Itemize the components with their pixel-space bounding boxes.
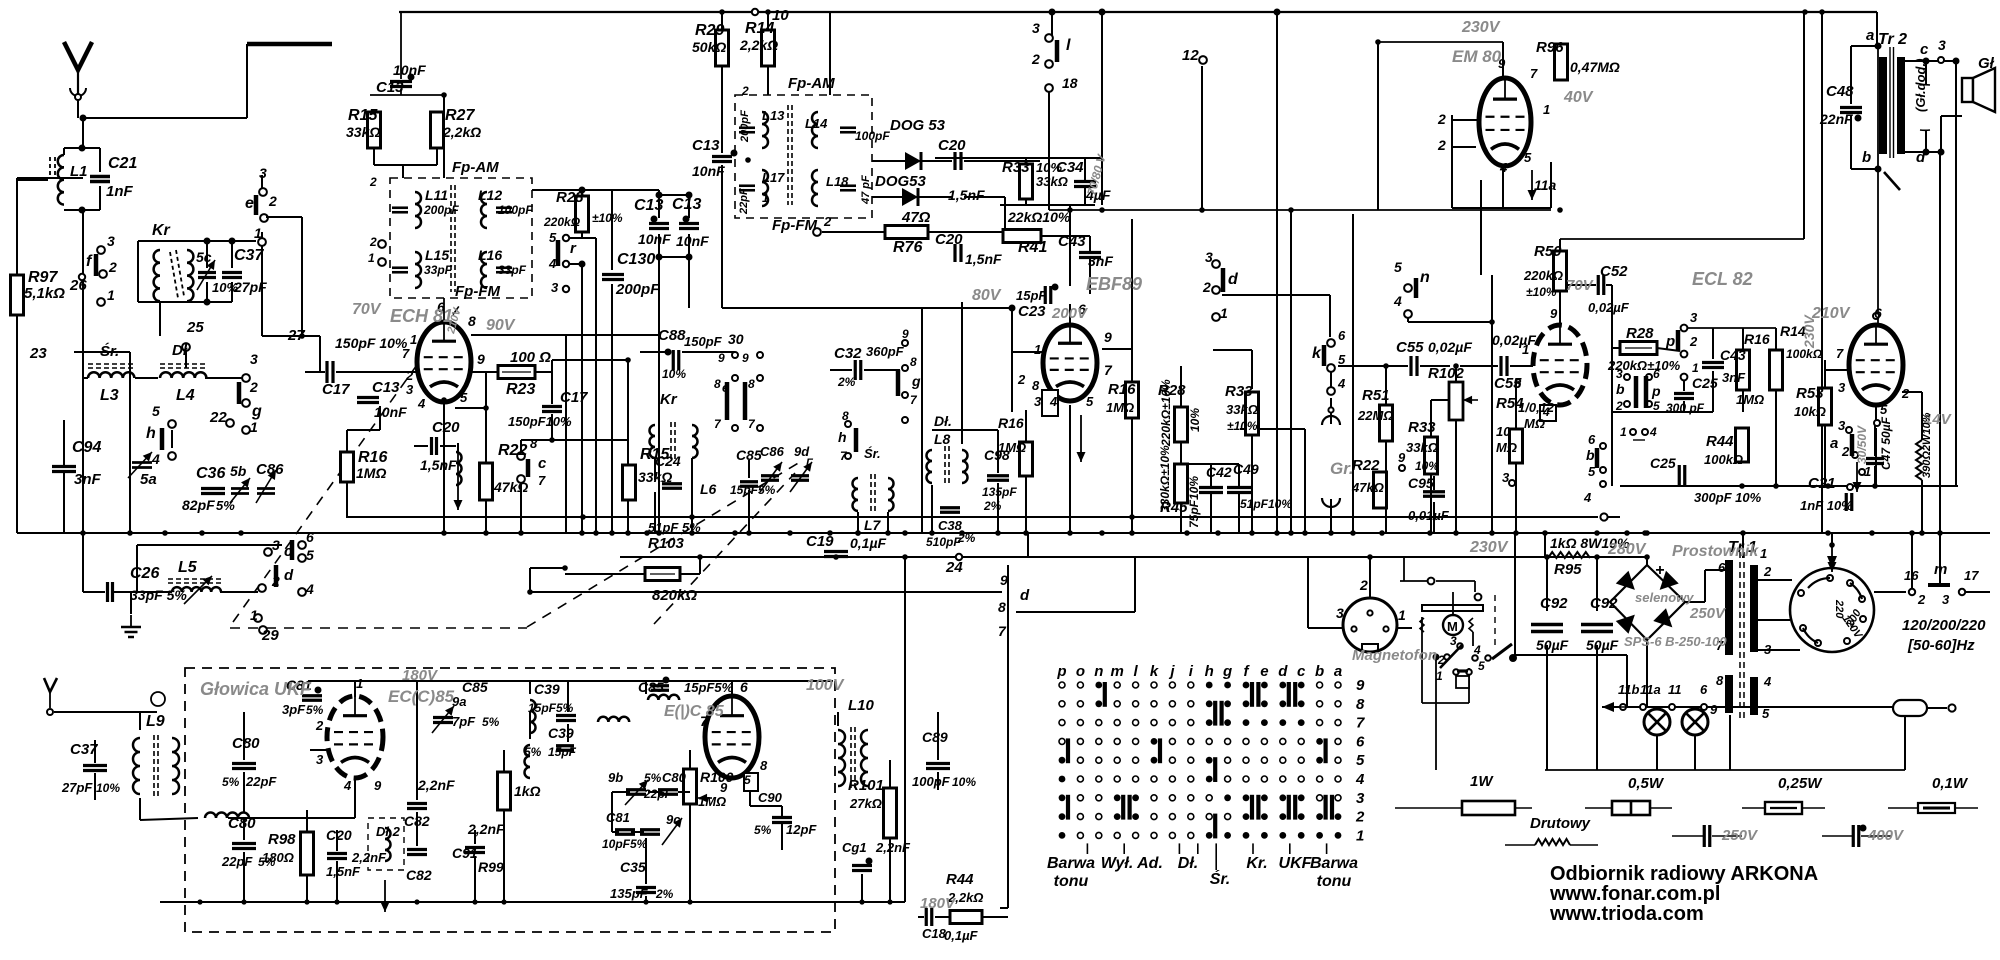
svg-text:25: 25 [186, 319, 204, 336]
svg-text:b: b [1586, 447, 1595, 463]
svg-text:C17: C17 [322, 381, 350, 398]
svg-text:3nF: 3nF [1088, 253, 1113, 269]
svg-text:2: 2 [1359, 577, 1368, 593]
svg-text:R29: R29 [695, 22, 724, 39]
svg-text:3: 3 [1690, 310, 1698, 325]
svg-text:2: 2 [1031, 51, 1040, 67]
svg-text:k: k [1150, 663, 1159, 680]
svg-text:5: 5 [1356, 752, 1365, 769]
svg-text:p: p [1651, 383, 1661, 399]
svg-text:5: 5 [1653, 399, 1660, 413]
svg-text:4: 4 [1542, 405, 1550, 419]
svg-text:3: 3 [1764, 642, 1772, 657]
svg-text:510pF: 510pF [926, 535, 961, 549]
svg-text:200pF: 200pF [615, 281, 660, 298]
svg-text:C13: C13 [372, 379, 400, 396]
svg-text:200V: 200V [1051, 305, 1089, 322]
svg-text:Barwa: Barwa [1310, 855, 1358, 872]
svg-text:10pF5%: 10pF5% [602, 837, 648, 851]
svg-text:d: d [1916, 149, 1926, 166]
svg-text:0,5W: 0,5W [1628, 775, 1665, 792]
svg-text:16: 16 [1904, 568, 1919, 583]
svg-text:2: 2 [1202, 279, 1211, 295]
svg-text:8: 8 [842, 409, 849, 423]
svg-text:22pF: 22pF [221, 854, 253, 869]
svg-text:82pF: 82pF [182, 497, 215, 513]
svg-text:1: 1 [1398, 607, 1406, 623]
svg-text:4: 4 [1355, 771, 1365, 788]
svg-text:2%: 2% [837, 375, 856, 389]
svg-text:4: 4 [343, 778, 352, 793]
svg-text:4: 4 [1473, 643, 1481, 657]
svg-text:8: 8 [1514, 376, 1522, 391]
svg-text:9: 9 [1498, 56, 1506, 71]
svg-text:R44: R44 [1706, 433, 1734, 450]
svg-text:220kΩ: 220kΩ [1523, 268, 1563, 283]
svg-text:3nF: 3nF [1722, 370, 1746, 385]
svg-text:400V: 400V [1867, 827, 1905, 844]
svg-text:p: p [1665, 333, 1675, 350]
svg-text:9: 9 [902, 327, 909, 341]
svg-text:2: 2 [1437, 111, 1446, 127]
svg-text:250V: 250V [1689, 605, 1727, 622]
svg-text:180Ω: 180Ω [262, 850, 294, 865]
svg-text:8: 8 [1032, 378, 1040, 393]
svg-text:C13: C13 [672, 196, 701, 213]
svg-text:1MΩ: 1MΩ [998, 440, 1026, 455]
svg-text:R102: R102 [1428, 365, 1465, 382]
svg-text:1: 1 [1543, 102, 1550, 117]
svg-text:33kΩ: 33kΩ [1036, 174, 1068, 189]
svg-text:L16: L16 [478, 247, 502, 263]
svg-text:7: 7 [1530, 66, 1538, 81]
svg-text:[50-60]Hz: [50-60]Hz [1907, 637, 1975, 654]
svg-text:6: 6 [306, 529, 314, 545]
svg-text:50kΩ: 50kΩ [692, 39, 726, 55]
svg-text:Ad.: Ad. [1136, 855, 1163, 872]
svg-text:Kr: Kr [660, 391, 678, 408]
svg-text:80V: 80V [972, 287, 1002, 304]
svg-text:R16: R16 [1744, 331, 1770, 347]
svg-text:5%: 5% [754, 823, 772, 837]
svg-text:33kΩ: 33kΩ [638, 469, 672, 485]
svg-text:2: 2 [315, 718, 324, 733]
svg-text:C81: C81 [606, 810, 630, 825]
svg-text:200pF: 200pF [423, 203, 459, 217]
svg-text:C20: C20 [432, 419, 460, 436]
svg-text:3: 3 [551, 280, 559, 295]
svg-text:E(|)C 85: E(|)C 85 [664, 703, 725, 720]
svg-text:11: 11 [1668, 682, 1682, 697]
svg-text:1: 1 [762, 191, 769, 205]
svg-text:C85: C85 [462, 679, 488, 695]
svg-text:9: 9 [1710, 702, 1718, 717]
svg-text:7: 7 [998, 623, 1007, 639]
svg-text:C32: C32 [834, 345, 862, 362]
svg-text:C20: C20 [938, 137, 966, 154]
svg-text:Wył.: Wył. [1101, 855, 1134, 872]
svg-text:230V: 230V [1801, 314, 1817, 349]
svg-text:Odbiornik radiowy ARKONA: Odbiornik radiowy ARKONA [1550, 863, 1818, 885]
svg-text:1: 1 [107, 287, 115, 303]
svg-text:15pF5%: 15pF5% [684, 680, 734, 695]
svg-text:3: 3 [316, 752, 324, 767]
svg-text:10nF: 10nF [374, 404, 407, 420]
svg-text:1: 1 [1692, 361, 1699, 375]
svg-text:±10%: ±10% [592, 211, 623, 225]
svg-text:Głowica UKF: Głowica UKF [200, 679, 312, 699]
svg-text:Prostownik: Prostownik [1672, 543, 1759, 560]
svg-text:100 Ω: 100 Ω [510, 349, 551, 366]
svg-text:2: 2 [741, 84, 749, 98]
svg-text:4: 4 [1049, 394, 1058, 409]
svg-text:3: 3 [1336, 605, 1344, 621]
svg-text:C88: C88 [658, 327, 686, 344]
svg-text:1W: 1W [1470, 773, 1494, 790]
svg-text:9: 9 [718, 351, 725, 365]
svg-text:230V: 230V [1469, 539, 1509, 556]
svg-text:b: b [1862, 149, 1871, 166]
svg-text:L13: L13 [762, 108, 785, 123]
svg-text:L11: L11 [425, 187, 448, 203]
svg-text:1: 1 [1522, 342, 1529, 357]
svg-text:C48: C48 [1826, 83, 1854, 100]
svg-text:C92: C92 [1540, 595, 1568, 612]
svg-text:1: 1 [368, 251, 375, 265]
svg-text:L14: L14 [805, 116, 828, 131]
svg-text:1: 1 [250, 419, 258, 435]
svg-text:0,25W: 0,25W [1778, 775, 1823, 792]
svg-text:33kΩ: 33kΩ [1226, 402, 1258, 417]
svg-text:1MΩ: 1MΩ [1736, 392, 1764, 407]
svg-text:100pF: 100pF [498, 203, 533, 217]
svg-text:27kΩ: 27kΩ [849, 796, 882, 811]
svg-text:4: 4 [305, 581, 314, 597]
svg-text:10nF: 10nF [638, 231, 671, 247]
svg-text:2,2nF: 2,2nF [351, 850, 387, 865]
svg-text:220kΩ±10%: 220kΩ±10% [1159, 379, 1173, 447]
svg-text:C37: C37 [70, 741, 98, 758]
svg-text:5: 5 [1394, 259, 1402, 275]
svg-text:3: 3 [406, 382, 414, 397]
svg-text:1: 1 [1864, 464, 1871, 479]
svg-text:0,01µF: 0,01µF [1408, 508, 1450, 523]
svg-text:150pF: 150pF [684, 334, 723, 349]
svg-text:a: a [1866, 27, 1874, 44]
svg-text:15pF: 15pF [1016, 288, 1047, 303]
svg-text:220kΩ: 220kΩ [543, 215, 581, 229]
svg-text:3: 3 [1942, 592, 1950, 607]
svg-text:2,2kΩ: 2,2kΩ [442, 124, 481, 140]
svg-text:3pF: 3pF [282, 702, 306, 717]
svg-text:5: 5 [1338, 352, 1346, 367]
svg-text:C18: C18 [922, 926, 947, 941]
svg-text:330kΩ±10%: 330kΩ±10% [1158, 445, 1172, 512]
svg-text:C82: C82 [406, 867, 432, 883]
svg-text:6: 6 [1874, 305, 1882, 321]
svg-text:2%: 2% [655, 887, 674, 901]
svg-text:200pF: 200pF [739, 110, 751, 143]
svg-text:33kΩ: 33kΩ [1406, 440, 1438, 455]
svg-text:C92: C92 [1590, 595, 1618, 612]
svg-text:Gł: Gł [1978, 55, 1995, 72]
svg-text:5%: 5% [306, 703, 324, 717]
svg-text:5: 5 [306, 547, 314, 563]
svg-text:1: 1 [250, 607, 258, 623]
svg-text:4: 4 [1393, 293, 1402, 309]
svg-text:33pF 5%: 33pF 5% [130, 587, 187, 603]
svg-text:5: 5 [1588, 464, 1596, 479]
svg-text:www.trioda.com: www.trioda.com [1549, 903, 1704, 925]
svg-text:7: 7 [700, 713, 709, 729]
svg-text:R97: R97 [28, 269, 58, 286]
svg-text:24: 24 [945, 559, 963, 576]
svg-text:280V: 280V [1607, 541, 1647, 558]
svg-text:C95: C95 [1408, 475, 1434, 491]
svg-text:L1: L1 [70, 163, 88, 180]
svg-text:26: 26 [69, 277, 87, 294]
svg-text:a: a [1830, 435, 1838, 452]
svg-text:C26: C26 [130, 565, 159, 582]
svg-text:8: 8 [468, 313, 476, 329]
svg-text:3: 3 [1356, 790, 1365, 807]
svg-text:180V: 180V [402, 667, 439, 684]
svg-text:8: 8 [1356, 696, 1365, 713]
svg-text:2: 2 [1437, 137, 1446, 153]
svg-text:180V: 180V [920, 895, 957, 912]
svg-text:150pF10%: 150pF10% [508, 414, 572, 429]
svg-text:1: 1 [410, 332, 417, 347]
svg-text:L4: L4 [176, 387, 195, 404]
svg-text:100V: 100V [806, 677, 845, 694]
svg-text:2: 2 [1901, 386, 1910, 401]
svg-text:L9: L9 [146, 713, 165, 730]
svg-text:L12: L12 [478, 187, 502, 203]
svg-text:5: 5 [1524, 150, 1532, 165]
svg-text:Barwa: Barwa [1047, 855, 1095, 872]
svg-text:2: 2 [1763, 564, 1772, 579]
svg-text:0,47MΩ: 0,47MΩ [1570, 59, 1620, 75]
svg-text:1MΩ: 1MΩ [698, 794, 726, 809]
svg-text:R33: R33 [1408, 419, 1436, 436]
svg-text:9b: 9b [608, 770, 623, 785]
svg-text:2: 2 [1437, 653, 1445, 667]
svg-text:Tr 2: Tr 2 [1878, 31, 1907, 48]
svg-text:2: 2 [369, 235, 377, 249]
svg-text:2: 2 [1017, 372, 1026, 387]
svg-text:33pF: 33pF [498, 263, 527, 277]
svg-text:22MΩ: 22MΩ [1357, 408, 1393, 423]
svg-text:12: 12 [1182, 47, 1199, 64]
svg-text:51pF10%: 51pF10% [1240, 497, 1292, 511]
svg-text:7pF: 7pF [452, 714, 476, 729]
svg-text:50µF: 50µF [1586, 637, 1619, 653]
svg-text:L10: L10 [848, 697, 875, 714]
svg-text:7: 7 [402, 346, 410, 361]
svg-text:50µF: 50µF [1536, 637, 1569, 653]
svg-text:Kr: Kr [152, 222, 171, 239]
svg-text:e: e [722, 380, 729, 395]
svg-text:9a: 9a [452, 694, 466, 709]
svg-text:C39: C39 [548, 725, 574, 741]
svg-text:18: 18 [1062, 75, 1078, 91]
svg-text:2: 2 [271, 573, 280, 589]
svg-text:M: M [1447, 619, 1458, 634]
svg-text:g: g [911, 373, 921, 389]
svg-text:C86: C86 [760, 444, 785, 459]
svg-text:Fp-AM: Fp-AM [788, 75, 835, 92]
svg-text:2: 2 [1841, 444, 1850, 459]
svg-text:R33: R33 [1002, 159, 1030, 176]
svg-text:1: 1 [1220, 305, 1228, 321]
svg-text:g: g [251, 403, 262, 420]
svg-text:0,1µF: 0,1µF [944, 928, 979, 943]
svg-text:2: 2 [405, 368, 414, 383]
svg-text:15pF5%: 15pF5% [528, 701, 574, 715]
svg-text:ECL 82: ECL 82 [1692, 269, 1753, 289]
svg-text:10%: 10% [662, 367, 686, 381]
svg-text:2%: 2% [983, 499, 1002, 513]
svg-text:10%: 10% [952, 775, 976, 789]
svg-text:C90: C90 [758, 790, 783, 805]
svg-text:C91: C91 [452, 845, 478, 861]
svg-text:8: 8 [748, 377, 755, 391]
svg-text:R101: R101 [848, 777, 884, 794]
svg-text:d: d [1020, 587, 1030, 604]
svg-text:6: 6 [740, 679, 748, 695]
svg-text:R15: R15 [348, 107, 378, 124]
svg-text:c: c [1920, 41, 1929, 58]
svg-text:MΩ: MΩ [1496, 440, 1517, 455]
svg-text:135pF: 135pF [982, 485, 1017, 499]
svg-text:9c: 9c [666, 812, 681, 827]
svg-text:360pF: 360pF [866, 344, 905, 359]
svg-text:n: n [1420, 269, 1430, 286]
svg-text:30/50V: 30/50V [1855, 425, 1869, 464]
svg-text:47Ω: 47Ω [901, 209, 931, 226]
svg-text:Fp-FM: Fp-FM [772, 217, 817, 234]
svg-text:10: 10 [1496, 424, 1511, 439]
svg-text:R41: R41 [1018, 239, 1047, 256]
svg-text:2: 2 [268, 193, 277, 209]
svg-text:4: 4 [1337, 376, 1346, 391]
svg-text:5,1kΩ: 5,1kΩ [24, 285, 65, 302]
svg-text:7: 7 [538, 473, 546, 488]
svg-text:6: 6 [1338, 328, 1346, 343]
svg-text:R76: R76 [893, 239, 922, 256]
svg-text:C80: C80 [228, 815, 256, 832]
svg-text:1nF 10%: 1nF 10% [1800, 498, 1853, 513]
svg-text:www.fonar.com.pl: www.fonar.com.pl [1549, 883, 1720, 905]
svg-text:ECH 81: ECH 81 [390, 306, 453, 326]
svg-text:5c: 5c [196, 249, 212, 265]
svg-text:MΩ: MΩ [1524, 416, 1545, 431]
svg-text:C17: C17 [560, 389, 588, 406]
svg-text:e: e [1260, 663, 1268, 680]
svg-text:R14: R14 [745, 20, 774, 37]
svg-text:R27: R27 [445, 107, 475, 124]
svg-text:C21: C21 [1808, 475, 1836, 492]
svg-text:11a: 11a [1534, 177, 1557, 193]
svg-text:3: 3 [1838, 380, 1846, 395]
svg-text:±10%: ±10% [1526, 285, 1557, 299]
svg-text:Cg1: Cg1 [842, 840, 867, 855]
svg-text:120/200/220: 120/200/220 [1902, 617, 1986, 634]
svg-text:9: 9 [1550, 306, 1558, 321]
svg-text:R50: R50 [1534, 243, 1562, 260]
svg-text:c: c [284, 543, 293, 560]
svg-text:+: + [1655, 562, 1664, 579]
svg-text:h: h [838, 429, 847, 445]
svg-text:9: 9 [374, 778, 382, 793]
svg-text:R16: R16 [358, 449, 387, 466]
svg-text:h: h [1205, 663, 1214, 680]
svg-text:5%: 5% [222, 775, 240, 789]
svg-text:4: 4 [1763, 674, 1772, 689]
svg-text:5a: 5a [140, 471, 157, 488]
svg-text:300 pF: 300 pF [1666, 401, 1705, 415]
svg-text:Drutowy: Drutowy [1530, 815, 1591, 832]
svg-text:5%: 5% [758, 483, 776, 497]
svg-text:C42: C42 [1206, 464, 1232, 480]
svg-text:L5: L5 [178, 559, 198, 576]
svg-text:C25: C25 [1692, 375, 1718, 391]
svg-text:UKF: UKF [1279, 855, 1313, 872]
svg-text:EM 80: EM 80 [1452, 47, 1502, 66]
svg-text:c: c [538, 455, 547, 472]
svg-text:C80: C80 [232, 735, 260, 752]
svg-text:9: 9 [1000, 572, 1008, 588]
svg-text:22: 22 [209, 409, 227, 426]
svg-text:27pF: 27pF [233, 279, 267, 295]
svg-text:R53: R53 [1796, 385, 1824, 402]
svg-text:L17: L17 [762, 170, 785, 185]
svg-text:22pF: 22pF [245, 774, 277, 789]
svg-text:3: 3 [107, 233, 115, 249]
svg-text:Fp-AM: Fp-AM [452, 159, 499, 176]
svg-text:10: 10 [772, 7, 789, 24]
svg-text:100kΩ: 100kΩ [1786, 347, 1823, 361]
svg-text:C35: C35 [620, 859, 646, 875]
svg-text:1: 1 [1356, 827, 1364, 844]
svg-text:820kΩ: 820kΩ [652, 587, 697, 604]
svg-text:R95: R95 [1554, 561, 1582, 578]
svg-text:3: 3 [1450, 634, 1457, 648]
svg-text:5: 5 [744, 773, 751, 787]
svg-text:tonu: tonu [1317, 873, 1352, 890]
svg-text:d: d [1278, 663, 1288, 680]
svg-text:e: e [245, 195, 254, 212]
svg-text:9: 9 [742, 351, 749, 365]
svg-text:a: a [1334, 663, 1342, 680]
svg-text:1: 1 [254, 225, 262, 241]
svg-text:6: 6 [1718, 560, 1726, 575]
svg-text:10%: 10% [1415, 459, 1439, 473]
svg-text:2: 2 [823, 214, 832, 229]
svg-text:10nF: 10nF [692, 163, 725, 179]
svg-text:C43: C43 [1720, 347, 1746, 363]
svg-text:L18: L18 [826, 174, 849, 189]
svg-text:C13: C13 [376, 79, 404, 96]
svg-text:1nF: 1nF [106, 183, 134, 200]
svg-text:23: 23 [29, 345, 47, 362]
svg-text:2: 2 [1689, 334, 1698, 349]
svg-text:11b: 11b [1618, 682, 1639, 697]
svg-text:29: 29 [261, 627, 279, 644]
svg-text:Dł.: Dł. [934, 413, 952, 429]
svg-text:L6: L6 [700, 481, 717, 497]
svg-text:C21: C21 [108, 155, 137, 172]
